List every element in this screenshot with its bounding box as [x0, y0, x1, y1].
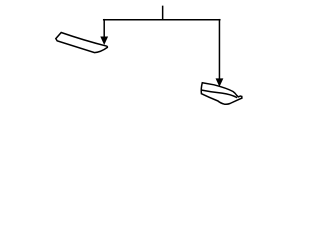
- wire left leader drop: [103, 20, 105, 37]
- callout tick (item number stem): [162, 6, 164, 19]
- part right sill plate fold line: [202, 90, 237, 97]
- wire right leader drop: [218, 20, 220, 79]
- arrowhead left: [100, 37, 108, 46]
- arrowhead right: [216, 78, 224, 87]
- part left sill strip outline: [56, 33, 108, 53]
- part right sill plate outline: [201, 83, 242, 105]
- wire bracket horizontal line: [104, 19, 220, 21]
